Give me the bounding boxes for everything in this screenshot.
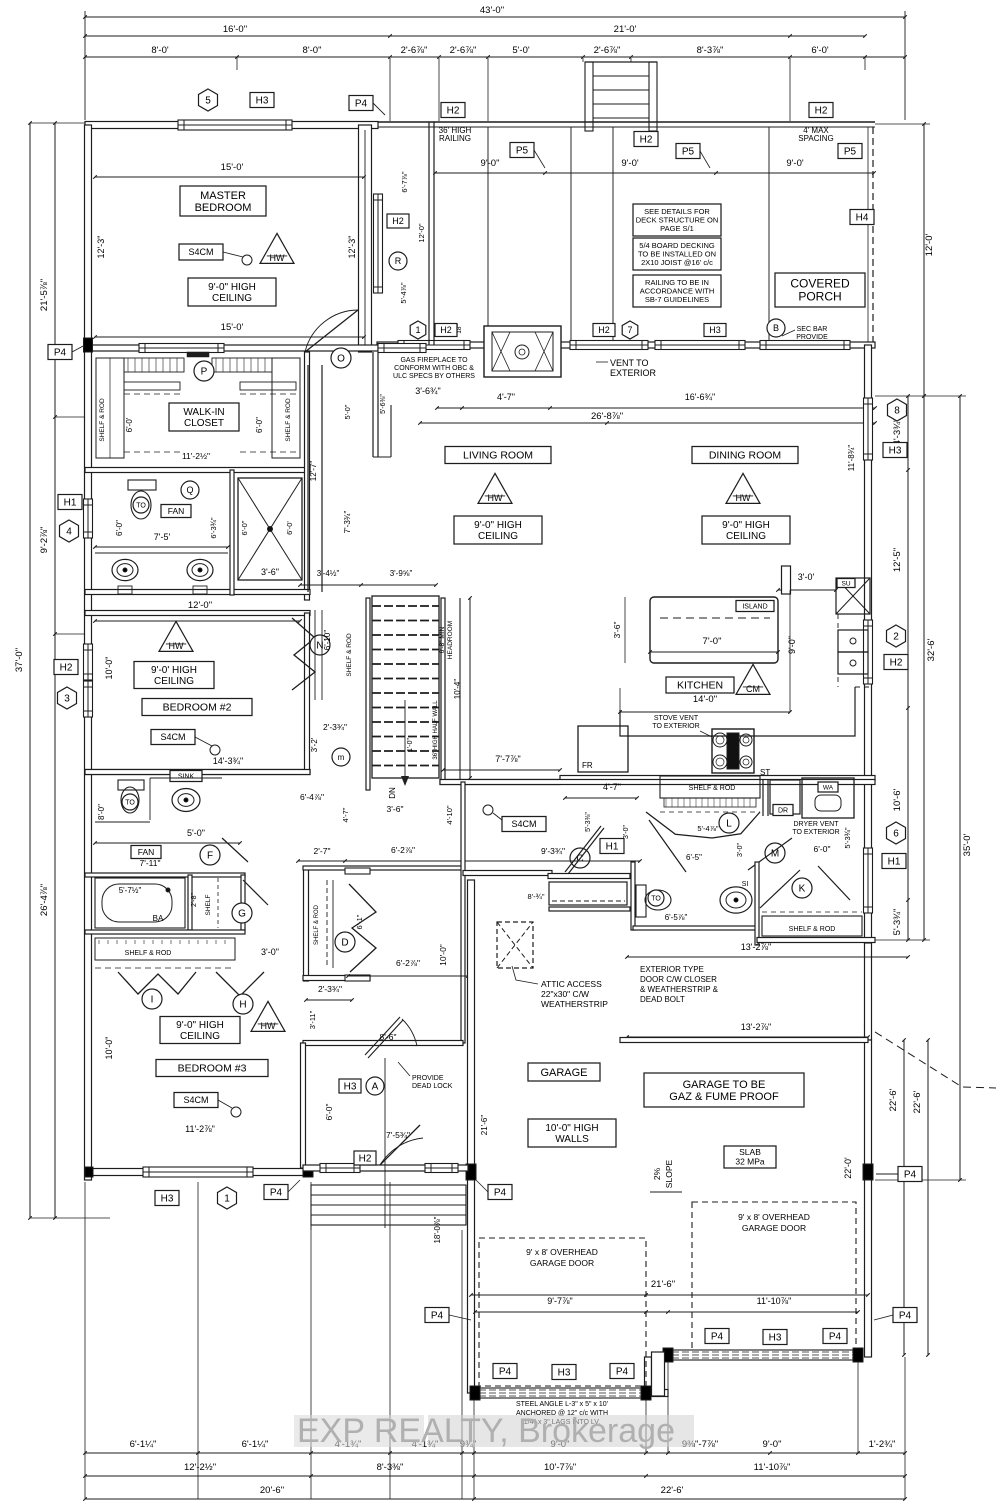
svg-text:37'-0": 37'-0" <box>14 648 25 672</box>
symbol hex 5 <box>199 89 218 111</box>
svg-text:SLOPE: SLOPE <box>664 1160 674 1189</box>
svg-text:COVERED: COVERED <box>790 277 850 291</box>
svg-text:CLOSET: CLOSET <box>184 418 224 429</box>
svg-text:6: 6 <box>893 829 899 840</box>
svg-text:2'-7": 2'-7" <box>314 846 331 856</box>
bath2 right walls <box>188 875 192 930</box>
svg-text:BEDROOM #3: BEDROOM #3 <box>178 1063 247 1075</box>
svg-text:ISLAND: ISLAND <box>742 604 767 611</box>
svg-text:BEDROOM: BEDROOM <box>195 202 252 214</box>
garage note <box>644 1073 804 1107</box>
label bedroom2 <box>142 699 252 716</box>
svg-text:GARAGE TO BE: GARAGE TO BE <box>683 1079 766 1091</box>
svg-text:P5: P5 <box>844 147 857 158</box>
svg-text:Q: Q <box>186 485 193 495</box>
svg-text:CEILING: CEILING <box>478 531 518 542</box>
svg-text:SI: SI <box>742 881 749 888</box>
svg-text:TO: TO <box>651 895 661 902</box>
svg-text:9'-0" HIGH: 9'-0" HIGH <box>208 282 256 293</box>
svg-text:BA: BA <box>153 914 164 923</box>
garage door dashed right <box>692 1202 856 1356</box>
svg-text:11'-2½": 11'-2½" <box>182 451 210 461</box>
symbol R nook <box>389 252 407 270</box>
door H <box>216 972 264 996</box>
foyer walls <box>301 1043 306 1168</box>
garage door opening left <box>475 1388 646 1398</box>
svg-text:22'-0': 22'-0' <box>843 1157 853 1179</box>
svg-text:SEC BAR: SEC BAR <box>797 326 828 333</box>
svg-text:2'-3¾": 2'-3¾" <box>323 722 347 732</box>
svg-text:GAZ & FUME PROOF: GAZ & FUME PROOF <box>669 1091 779 1103</box>
corner sink SU <box>836 578 870 614</box>
triangle HW bed2 <box>159 621 193 651</box>
svg-text:9'-7⅞": 9'-7⅞" <box>547 1296 572 1306</box>
smoke det hall <box>502 817 546 832</box>
svg-text:14'-3¾": 14'-3¾" <box>213 756 243 766</box>
svg-text:H3: H3 <box>256 96 269 107</box>
symbol Q <box>181 481 199 499</box>
bath2 vanity line <box>150 777 222 779</box>
svg-text:12'-5": 12'-5" <box>892 548 903 572</box>
svg-text:H2: H2 <box>598 325 610 335</box>
bath2 fixtures top <box>85 770 310 775</box>
svg-text:12'-0": 12'-0" <box>417 223 426 242</box>
symbol hex 3 <box>58 687 77 709</box>
house top wall <box>377 342 875 348</box>
svg-text:HEADROOM: HEADROOM <box>447 621 454 659</box>
svg-text:5'-0": 5'-0" <box>343 404 352 419</box>
garage door opening right <box>668 1350 858 1360</box>
svg-text:HW: HW <box>736 493 751 503</box>
svg-text:CEILING: CEILING <box>212 293 252 304</box>
svg-text:6'-0': 6'-0' <box>285 521 294 535</box>
right wall upper <box>865 345 872 943</box>
left dim chain 21'-5 / 9'-2 / 26'-4 <box>54 123 56 1218</box>
svg-text:H2: H2 <box>890 658 903 669</box>
svg-text:SHELF & ROD: SHELF & ROD <box>125 950 172 957</box>
svg-text:12'-3": 12'-3" <box>347 236 357 259</box>
symbol H2 left <box>54 660 78 675</box>
svg-text:9'-0" HIGH: 9'-0" HIGH <box>176 1020 224 1031</box>
svg-text:MASTER: MASTER <box>200 190 246 202</box>
garage corner step <box>652 1352 665 1396</box>
svg-text:TO EXTERIOR: TO EXTERIOR <box>652 723 699 730</box>
svg-text:RAILING: RAILING <box>439 134 471 143</box>
svg-text:9'-0": 9'-0" <box>787 636 797 654</box>
svg-text:7'-7⅞": 7'-7⅞" <box>495 754 520 764</box>
svg-text:BEDROOM #2: BEDROOM #2 <box>163 702 232 714</box>
deck stairs top <box>585 62 593 131</box>
dim 32'-6 <box>923 396 925 940</box>
wall symbols row <box>435 324 457 337</box>
svg-text:S4CM: S4CM <box>160 732 185 742</box>
kitchen corner wall stub <box>782 566 791 594</box>
svg-text:EXP REALTY, Brokerage: EXP REALTY, Brokerage <box>297 1412 675 1450</box>
svg-text:3'-6": 3'-6" <box>612 622 622 639</box>
svg-text:3'-0": 3'-0" <box>261 947 279 957</box>
svg-text:STEEL ANGLE L-3" x 5" x 10': STEEL ANGLE L-3" x 5" x 10' <box>516 1401 608 1408</box>
mudroom top wall <box>440 780 875 785</box>
svg-text:HW: HW <box>270 253 285 263</box>
deck right edge dashed <box>872 127 874 342</box>
svg-text:SINK: SINK <box>178 774 195 781</box>
svg-text:10'-0": 10'-0" <box>438 944 448 966</box>
svg-text:9'-0": 9'-0" <box>763 1439 782 1450</box>
triangle HW master <box>260 233 294 263</box>
dim 35'-0 <box>959 396 961 1180</box>
svg-text:GARAGE: GARAGE <box>540 1067 587 1079</box>
symbol H4 <box>850 210 874 225</box>
svg-text:15'-0': 15'-0' <box>221 162 244 173</box>
laundry closet bottom <box>757 938 875 943</box>
svg-text:5'-0": 5'-0" <box>187 828 205 838</box>
svg-text:6'-5": 6'-5" <box>686 853 702 862</box>
bed3 closet shelf rod <box>85 930 245 934</box>
svg-text:SB-7 GUIDELINES: SB-7 GUIDELINES <box>645 295 709 304</box>
dim 16'-0 / 21'-0 <box>85 35 865 37</box>
svg-text:P4: P4 <box>904 1170 917 1181</box>
door M <box>765 843 785 863</box>
svg-text:P4: P4 <box>899 1311 912 1322</box>
dashed diagonal right <box>864 1025 996 1088</box>
dim 43'-0 overall top <box>85 16 905 18</box>
svg-text:6'-1¼": 6'-1¼" <box>130 1439 157 1450</box>
svg-text:P: P <box>201 367 208 378</box>
svg-text:HW: HW <box>261 1021 276 1031</box>
svg-text:6'-1": 6'-1" <box>355 914 364 929</box>
closet shelf rod bed2 <box>314 610 316 700</box>
dryer DR <box>770 780 800 814</box>
smoke det bed2 <box>151 730 195 745</box>
garage bottom symbols <box>493 1364 517 1379</box>
C closet wall (8 ft) <box>463 871 552 876</box>
svg-text:12'-3": 12'-3" <box>96 236 106 259</box>
walkin closet walls <box>85 468 310 473</box>
svg-text:TO: TO <box>136 502 146 509</box>
svg-text:H2: H2 <box>447 106 460 117</box>
bottom extension lines <box>84 1182 86 1499</box>
label covered porch <box>775 273 865 307</box>
svg-text:H2: H2 <box>359 1154 372 1165</box>
svg-text:12'-0": 12'-0" <box>188 600 212 611</box>
svg-text:P4: P4 <box>499 1367 512 1378</box>
powder room walls <box>631 862 635 930</box>
stair treads <box>372 596 439 778</box>
svg-text:HW: HW <box>169 641 184 651</box>
svg-text:H2: H2 <box>392 216 404 226</box>
svg-text:SLAB: SLAB <box>739 1147 761 1157</box>
svg-text:32 MPa: 32 MPa <box>735 1157 765 1167</box>
symbol hex 2 <box>887 625 906 647</box>
svg-text:DINING ROOM: DINING ROOM <box>709 450 781 462</box>
master bedroom walls <box>85 122 378 129</box>
label FAN <box>161 505 191 518</box>
washer WA <box>802 778 854 818</box>
door C pair right <box>649 820 686 872</box>
symbol P4 garage left <box>488 1185 512 1200</box>
dim 12'-0 right top <box>923 124 925 396</box>
svg-text:PAGE S/1: PAGE S/1 <box>660 224 694 233</box>
svg-text:8'-3⅞": 8'-3⅞" <box>697 45 724 56</box>
stair arrow <box>404 700 406 782</box>
svg-text:2'-6⅞": 2'-6⅞" <box>401 45 428 56</box>
svg-text:L: L <box>726 819 732 830</box>
front door <box>320 1164 360 1173</box>
svg-text:A: A <box>372 1082 379 1093</box>
svg-text:O: O <box>337 354 345 365</box>
smoke det S4CM <box>179 244 223 260</box>
porch steps front <box>311 1185 466 1225</box>
svg-text:1'-0": 1'-0" <box>407 738 414 752</box>
door L <box>719 813 739 833</box>
svg-text:8'-0': 8'-0' <box>151 45 169 56</box>
bed3 bottom wall <box>85 1169 312 1176</box>
svg-text:DOOR C/W CLOSER: DOOR C/W CLOSER <box>640 975 717 984</box>
svg-text:2'-3¾": 2'-3¾" <box>318 984 342 994</box>
svg-text:6'-0": 6'-0" <box>115 520 124 536</box>
stair dim line 10-4 <box>469 598 471 778</box>
svg-text:8'-0": 8'-0" <box>97 804 106 820</box>
svg-text:8'-0": 8'-0" <box>303 45 322 56</box>
right chain 4-3/12-5/10-6/5-3 <box>907 396 909 940</box>
garage left wall <box>468 880 475 1393</box>
svg-text:WA: WA <box>823 784 834 791</box>
right wall double sink <box>838 630 868 652</box>
shower <box>238 478 302 580</box>
deck rail top <box>377 121 875 123</box>
svg-text:B: B <box>773 323 779 333</box>
mud walls right <box>865 943 872 1040</box>
svg-text:H3: H3 <box>889 446 902 457</box>
svg-text:F: F <box>207 851 213 862</box>
svg-text:2%: 2% <box>652 1167 662 1180</box>
svg-text:7: 7 <box>627 325 632 335</box>
svg-text:11'-10⅞": 11'-10⅞" <box>754 1462 791 1473</box>
svg-text:7'-5': 7'-5' <box>154 532 171 542</box>
svg-text:18'-0⅞": 18'-0⅞" <box>433 1216 442 1243</box>
svg-text:6'-5⅞": 6'-5⅞" <box>665 913 688 922</box>
svg-text:D: D <box>341 938 348 949</box>
deck note 3 <box>633 275 721 307</box>
svg-text:6'-0": 6'-0" <box>324 1104 334 1121</box>
svg-text:9'-0': 9'-0' <box>786 158 804 169</box>
svg-text:ATTIC ACCESS: ATTIC ACCESS <box>541 979 602 989</box>
door F bath2 <box>200 845 220 865</box>
svg-text:6'-10": 6'-10" <box>323 630 332 651</box>
svg-text:m: m <box>338 753 345 762</box>
kitchen island <box>650 597 778 663</box>
svg-text:12'-2½": 12'-2½" <box>184 1462 216 1473</box>
bath2 tub <box>85 873 245 877</box>
svg-text:14'-0": 14'-0" <box>693 694 717 705</box>
svg-text:H2: H2 <box>440 325 452 335</box>
door K <box>792 878 812 898</box>
svg-text:10'-0": 10'-0" <box>104 1037 114 1060</box>
svg-text:11'-10⅞": 11'-10⅞" <box>757 1296 792 1306</box>
svg-text:CEILING: CEILING <box>726 531 766 542</box>
svg-text:SU: SU <box>841 580 850 587</box>
door O master <box>331 348 351 368</box>
label 9-0 ceiling master <box>188 278 276 306</box>
toilet powder <box>636 885 646 917</box>
door G <box>232 903 252 923</box>
window left wall H2 double <box>84 644 93 680</box>
svg-text:P4: P4 <box>829 1332 842 1343</box>
svg-text:3'-0': 3'-0' <box>798 572 815 582</box>
svg-text:SHELF & ROD: SHELF & ROD <box>789 926 836 933</box>
svg-text:H2: H2 <box>640 135 653 146</box>
svg-text:H3: H3 <box>344 1082 357 1093</box>
svg-text:WALK-IN: WALK-IN <box>183 407 224 418</box>
svg-text:SHELF & ROD: SHELF & ROD <box>285 398 292 442</box>
dim 26-8 <box>420 422 875 424</box>
svg-text:6'-7⅞": 6'-7⅞" <box>400 171 409 193</box>
svg-text:SHELF: SHELF <box>205 894 212 915</box>
symbol P5 x3 <box>510 143 534 158</box>
svg-text:22'-6': 22'-6' <box>661 1485 684 1496</box>
svg-text:21'-0': 21'-0' <box>614 24 637 35</box>
foyer symbols <box>339 1079 361 1093</box>
svg-text:6'-2⅞": 6'-2⅞" <box>396 958 420 968</box>
svg-text:21'-6": 21'-6" <box>651 1279 675 1290</box>
svg-text:3'-6": 3'-6" <box>261 567 279 577</box>
window right kitchen <box>864 620 873 684</box>
svg-text:KITCHEN: KITCHEN <box>677 680 723 692</box>
svg-text:CEILING: CEILING <box>180 1031 220 1042</box>
symbol H1 mud <box>600 839 624 854</box>
svg-text:GARAGE DOOR: GARAGE DOOR <box>742 1223 806 1233</box>
svg-text:22'-6': 22'-6' <box>912 1091 923 1114</box>
sink powder SI <box>720 887 752 913</box>
deck note 2 <box>633 238 721 270</box>
svg-text:21'-5⅞": 21'-5⅞" <box>39 279 50 311</box>
label walk-in closet <box>169 403 239 431</box>
svg-text:SHELF & ROD: SHELF & ROD <box>689 785 736 792</box>
window nook bottom <box>378 344 426 353</box>
label fan bath2 <box>131 846 161 859</box>
svg-text:1: 1 <box>415 325 420 335</box>
svg-text:DRYER VENT: DRYER VENT <box>794 821 840 828</box>
symbol H1 right <box>882 854 906 869</box>
svg-text:FAN: FAN <box>138 847 155 857</box>
svg-text:K: K <box>799 884 806 895</box>
garage bottom left wall <box>471 1390 475 1397</box>
svg-text:H1: H1 <box>888 857 901 868</box>
svg-text:6'-0": 6'-0" <box>240 520 249 535</box>
svg-text:& WEATHERSTRIP &: & WEATHERSTRIP & <box>640 985 719 994</box>
svg-text:9' x 8' OVERHEAD: 9' x 8' OVERHEAD <box>738 1212 810 1222</box>
svg-text:6'-2⅞": 6'-2⅞" <box>391 845 415 855</box>
svg-text:2'-8": 2'-8" <box>191 893 198 907</box>
nook window master east <box>374 194 383 293</box>
nook right wall <box>428 122 430 345</box>
svg-text:EXTERIOR: EXTERIOR <box>610 368 657 378</box>
symbol H3 right <box>883 443 907 458</box>
svg-text:GARAGE DOOR: GARAGE DOOR <box>530 1258 594 1268</box>
door center line <box>384 1058 386 1228</box>
door P closet <box>194 361 214 381</box>
counter front solid <box>620 687 855 736</box>
svg-text:6'-0": 6'-0" <box>255 417 264 433</box>
kitchen label + CM <box>666 677 734 693</box>
symbol H1 left <box>58 495 82 510</box>
svg-text:9'-3¾": 9'-3¾" <box>541 846 565 856</box>
symbol H2 right <box>884 655 908 670</box>
svg-text:FAN: FAN <box>168 506 185 516</box>
svg-text:G: G <box>238 909 246 920</box>
svg-text:35'-0': 35'-0' <box>962 834 973 857</box>
svg-text:5'-6⅜": 5'-6⅜" <box>380 394 387 414</box>
svg-text:2'-6⅞": 2'-6⅞" <box>594 45 621 56</box>
half wall living side <box>459 598 461 782</box>
svg-text:PROVIDE: PROVIDE <box>412 1075 444 1082</box>
svg-text:26'-4⅞": 26'-4⅞" <box>39 884 50 916</box>
svg-text:R: R <box>395 256 402 266</box>
door A <box>365 1017 400 1055</box>
sink bath2 <box>170 771 202 782</box>
svg-text:1: 1 <box>224 1194 230 1205</box>
bedroom2 bottom wall <box>85 770 310 775</box>
svg-text:7'-0": 7'-0" <box>703 636 722 647</box>
stove <box>712 729 754 773</box>
svg-text:S4CM: S4CM <box>183 1095 208 1105</box>
svg-text:16'-6¾": 16'-6¾" <box>685 392 715 402</box>
svg-text:6'-8" MIN: 6'-8" MIN <box>439 626 446 653</box>
symbol H2 nook <box>387 214 409 228</box>
symbols bottom bed3 <box>155 1191 179 1206</box>
svg-text:20'-6": 20'-6" <box>260 1485 284 1496</box>
window right H3 <box>864 398 873 460</box>
bath walls <box>85 590 310 595</box>
svg-text:LIVING ROOM: LIVING ROOM <box>463 450 533 462</box>
svg-text:3'-6": 3'-6" <box>387 804 404 814</box>
watermark EXP REALTY Brokerage <box>294 1415 694 1447</box>
svg-text:CONFORM WITH OBC &: CONFORM WITH OBC & <box>394 365 474 372</box>
svg-text:9'-0": 9'-0" <box>481 158 500 169</box>
svg-text:8'-6": 8'-6" <box>380 1032 397 1042</box>
garage door dashed left <box>479 1238 646 1386</box>
svg-text:H2: H2 <box>60 663 73 674</box>
svg-text:3'-6¾": 3'-6¾" <box>415 386 440 396</box>
bed3 closet bifold I <box>118 972 196 994</box>
closet D <box>304 868 309 981</box>
svg-text:P4: P4 <box>711 1332 724 1343</box>
bedroom2 top wall <box>85 611 310 616</box>
counter dashed edges <box>837 614 839 687</box>
svg-text:TO: TO <box>125 799 135 806</box>
garage label <box>528 1063 600 1081</box>
closet shelf left <box>96 358 124 458</box>
svg-text:5'-4⅞": 5'-4⅞" <box>399 282 408 304</box>
porch side lines <box>310 1225 312 1230</box>
toilet bath2 <box>118 780 144 790</box>
svg-text:5: 5 <box>205 96 211 107</box>
window left wall H1 <box>84 499 93 538</box>
svg-text:32'-6': 32'-6' <box>926 639 937 662</box>
svg-text:5'-3⅜": 5'-3⅜" <box>585 812 592 832</box>
laundry divider wall <box>762 780 764 816</box>
svg-text:H1: H1 <box>64 498 77 509</box>
posts on garage walls <box>466 1164 476 1180</box>
svg-text:15'-0': 15'-0' <box>221 322 244 333</box>
svg-text:8'-¾": 8'-¾" <box>527 892 544 901</box>
svg-text:5'-0': 5'-0' <box>512 45 530 56</box>
fridge FR <box>578 726 628 772</box>
svg-text:TO EXTERIOR: TO EXTERIOR <box>792 829 839 836</box>
window master top <box>178 120 292 130</box>
svg-text:16'-0": 16'-0" <box>223 24 247 35</box>
label master bedroom <box>180 186 266 216</box>
